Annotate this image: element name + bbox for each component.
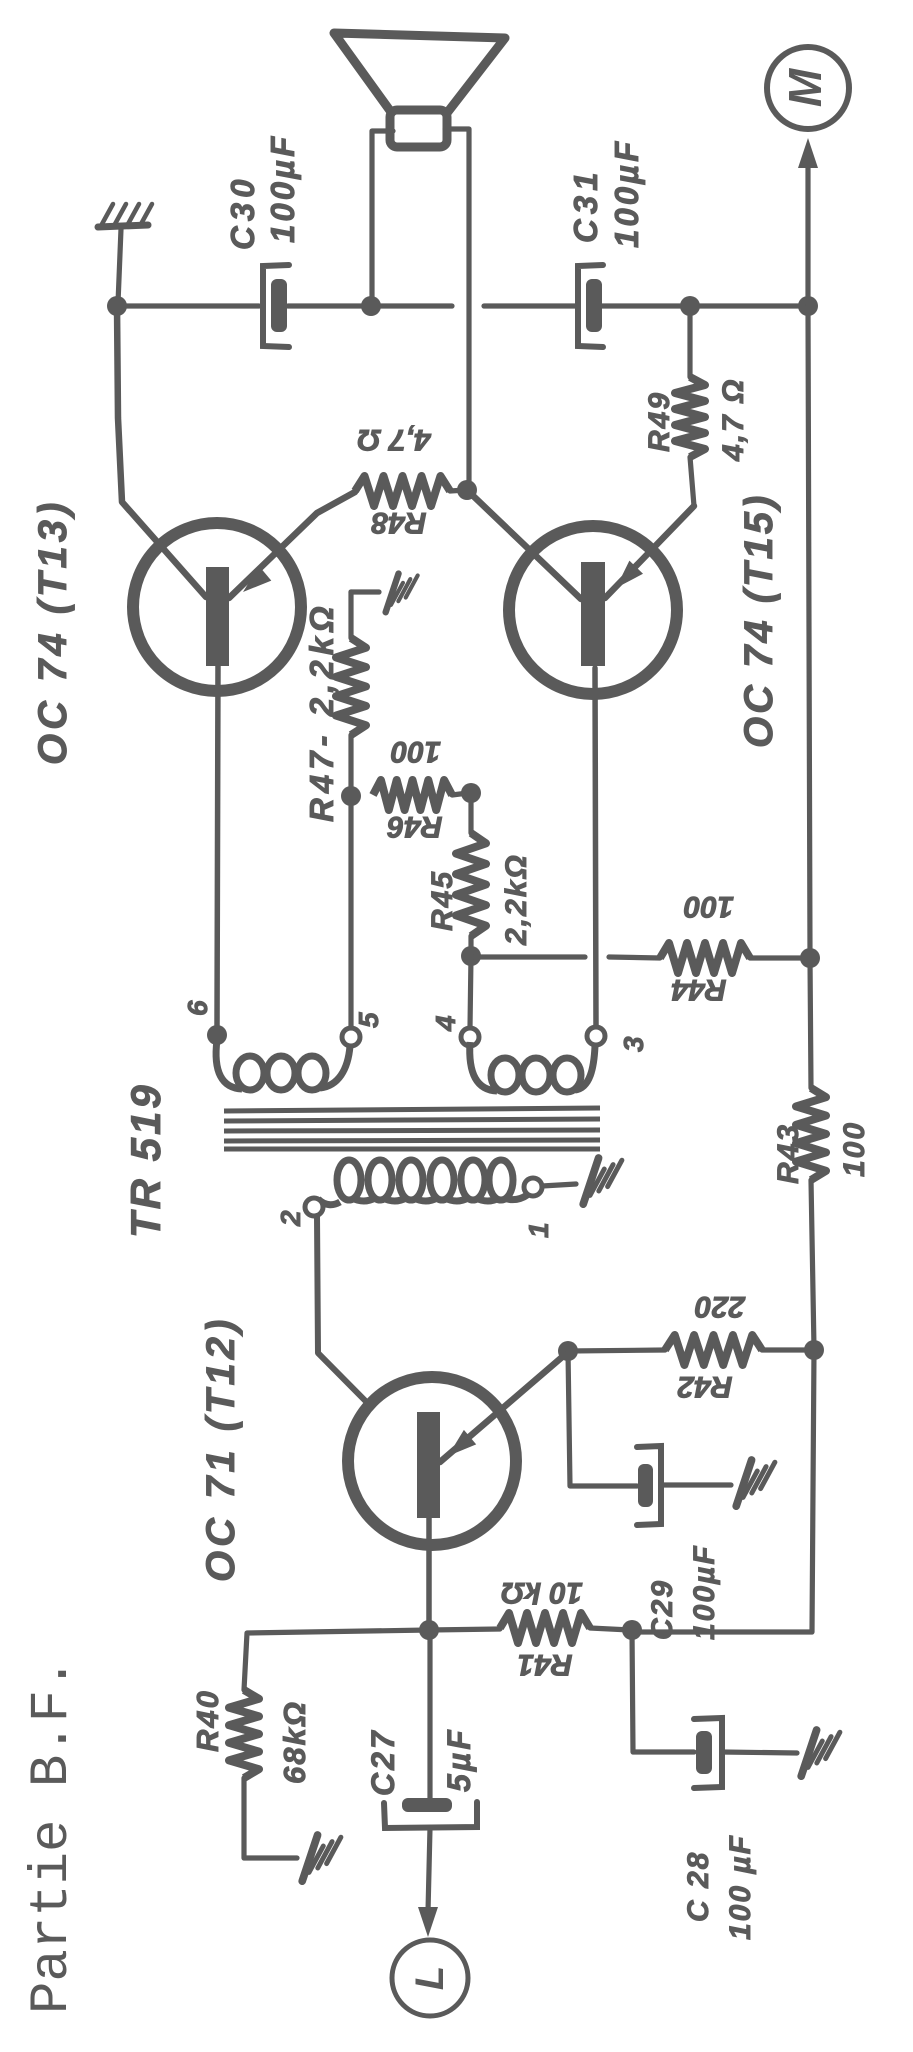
transistor T15 (OC74) circle bbox=[509, 526, 677, 694]
label T12 bbox=[199, 1316, 243, 1582]
label M bbox=[779, 67, 831, 107]
svg-text:M: M bbox=[779, 67, 831, 107]
label C28 value bbox=[724, 1834, 757, 1940]
label C29 bbox=[646, 1579, 679, 1640]
label C29 value bbox=[688, 1544, 721, 1640]
wire M lead bbox=[805, 166, 810, 306]
svg-text:R45: R45 bbox=[426, 870, 459, 931]
capacitor C29 wiring bbox=[568, 1351, 637, 1486]
T12 emitter arrow bbox=[448, 1430, 476, 1456]
label R49 bbox=[643, 391, 676, 452]
label R40 bbox=[190, 1689, 225, 1752]
label T15 bbox=[737, 493, 781, 748]
svg-text:R48: R48 bbox=[371, 506, 426, 539]
svg-text:5µF: 5µF bbox=[441, 1727, 477, 1792]
resistor R47 bbox=[336, 592, 366, 793]
svg-text:L: L bbox=[408, 1966, 452, 1990]
svg-text:100: 100 bbox=[684, 890, 734, 923]
wire top bus segment a bbox=[117, 303, 259, 308]
svg-text:R44: R44 bbox=[671, 973, 726, 1006]
wire GND1 stem bbox=[118, 229, 121, 303]
capacitor C31 bbox=[578, 265, 603, 347]
xfmr terminal 3 bbox=[587, 1027, 605, 1045]
svg-text:C27: C27 bbox=[365, 1728, 401, 1796]
node N4 (bus/M/right bus) bbox=[798, 296, 818, 316]
svg-text:R40: R40 bbox=[190, 1689, 225, 1752]
resistor R45 bbox=[456, 793, 486, 954]
svg-text:220: 220 bbox=[695, 1290, 746, 1323]
label T13 bbox=[31, 499, 75, 765]
label R48 value bbox=[357, 423, 431, 456]
ground GND2 (R47 top) bbox=[386, 574, 418, 613]
svg-text:OC 74 (T13): OC 74 (T13) bbox=[31, 499, 75, 765]
resistor R40 bbox=[229, 1630, 429, 1858]
wire N8 to terminal 4 bbox=[470, 956, 471, 1028]
wire T13 collector bbox=[117, 306, 206, 597]
resistor R42 bbox=[568, 1335, 810, 1365]
resistor R48 bbox=[355, 476, 466, 506]
wire speaker left lead bbox=[372, 131, 393, 302]
wire C28 to GND6 bbox=[722, 1752, 797, 1753]
wire T12 base lead bbox=[426, 1518, 432, 1628]
node N2 (speaker left) bbox=[361, 296, 381, 316]
resistor R44 bbox=[660, 943, 806, 973]
xfmr primary winding bbox=[318, 1160, 531, 1205]
label 4 bbox=[430, 1015, 461, 1032]
svg-text:4,7 Ω: 4,7 Ω bbox=[717, 378, 750, 462]
xfmr terminal 5 bbox=[342, 1028, 360, 1046]
svg-text:100µF: 100µF bbox=[264, 134, 301, 243]
label C31 value bbox=[567, 139, 645, 248]
svg-text:C31: C31 bbox=[567, 167, 604, 243]
terminal L circle bbox=[392, 1940, 468, 2016]
transistor T13 (OC74) circle bbox=[133, 523, 301, 691]
svg-text:2: 2 bbox=[275, 1210, 306, 1227]
T15 emitter arrow bbox=[616, 561, 643, 588]
label TR519 bbox=[122, 1082, 169, 1238]
wire R47 to GND2 bbox=[351, 589, 379, 594]
svg-text:100 µF: 100 µF bbox=[724, 1834, 757, 1940]
label R47 bbox=[303, 601, 340, 822]
wire speaker right lead bbox=[445, 129, 469, 487]
label R43 value bbox=[838, 1121, 871, 1177]
xfmr terminal 1 bbox=[524, 1178, 542, 1196]
svg-text:R43: R43 bbox=[772, 1123, 805, 1184]
wire C28 wiring bbox=[632, 1630, 694, 1752]
wire right bus lower bbox=[634, 1350, 814, 1632]
node N11 (emitter/R42/C29) bbox=[558, 1341, 578, 1361]
svg-text:68kΩ: 68kΩ bbox=[277, 1700, 312, 1784]
label R41 value bbox=[501, 1576, 583, 1609]
wire right bus upper bbox=[808, 306, 810, 955]
arrow to M bbox=[798, 138, 818, 168]
speaker LS bbox=[334, 33, 505, 147]
svg-text:100µF: 100µF bbox=[688, 1544, 721, 1640]
wire terminal 1 to GND3 bbox=[542, 1184, 576, 1186]
wire terminal2 to T12 collector bbox=[317, 1216, 417, 1453]
ground GND6 (C28) bbox=[801, 1730, 840, 1776]
wire C29 to GND4 bbox=[661, 1482, 731, 1487]
label R46 bbox=[387, 810, 442, 843]
label R45 bbox=[426, 870, 459, 931]
svg-text:Partie B.F.: Partie B.F. bbox=[22, 1658, 83, 2014]
wire T13 emitter bbox=[229, 492, 355, 598]
xfmr terminal 6 bbox=[207, 1025, 227, 1045]
arrow to L bbox=[418, 1907, 438, 1937]
node N12 (base/R40/R41/C27) bbox=[419, 1620, 439, 1640]
label C27 bbox=[365, 1728, 401, 1796]
ground GND4 (C29) bbox=[736, 1460, 775, 1506]
capacitor C28 bbox=[694, 1718, 722, 1788]
transistor T12 (OC71) circle bbox=[348, 1377, 516, 1545]
svg-text:C 28: C 28 bbox=[682, 1851, 715, 1922]
label 3 bbox=[618, 1036, 649, 1052]
capacitor C30 bbox=[263, 265, 289, 347]
resistor R49 bbox=[675, 306, 705, 506]
capacitor C27 bbox=[384, 1798, 477, 1828]
xfmr terminal 2 bbox=[305, 1198, 323, 1216]
node N13 (R41/C28/right bus) bbox=[622, 1620, 642, 1640]
svg-text:10 kΩ: 10 kΩ bbox=[501, 1576, 583, 1609]
resistor R46 bbox=[373, 780, 468, 810]
wire T15 collector bbox=[467, 490, 581, 599]
node N10 (R43/R42) bbox=[804, 1340, 824, 1360]
node N7 (R46/R45/speaker wire) bbox=[461, 783, 481, 803]
label 6 bbox=[182, 1000, 213, 1016]
label R48 bbox=[371, 506, 426, 539]
wire N6 to terminal 5 bbox=[348, 796, 353, 1028]
svg-text:6: 6 bbox=[182, 1000, 213, 1016]
svg-text:5: 5 bbox=[353, 1012, 384, 1028]
label R44 value bbox=[684, 890, 734, 923]
label R44 bbox=[671, 973, 726, 1006]
terminal M circle bbox=[767, 47, 849, 129]
svg-text:1: 1 bbox=[523, 1222, 554, 1238]
capacitor C27 wiring bbox=[427, 1630, 432, 1799]
capacitor C29 bbox=[637, 1446, 661, 1525]
label R41 bbox=[517, 1648, 572, 1681]
wire N8 to R44 b bbox=[609, 957, 660, 958]
T13 emitter arrow bbox=[243, 566, 271, 592]
wire top bus segment d bbox=[602, 303, 808, 308]
label 5 bbox=[353, 1012, 384, 1028]
title Partie B.F. bbox=[22, 1658, 83, 2014]
svg-text:R41: R41 bbox=[517, 1648, 572, 1681]
node N3 (R49 top) bbox=[680, 296, 700, 316]
svg-text:OC 74 (T15): OC 74 (T15) bbox=[737, 493, 781, 748]
wire N8 to R44 a bbox=[471, 954, 585, 959]
wire top bus segment c bbox=[484, 303, 577, 308]
label R45 value bbox=[500, 853, 533, 946]
node N1 (GND1/bus/T13 collector) bbox=[107, 296, 127, 316]
wire top bus segment b bbox=[288, 303, 452, 308]
label 2 bbox=[275, 1210, 306, 1227]
label R49 value bbox=[717, 378, 750, 462]
svg-text:100µF: 100µF bbox=[608, 139, 645, 248]
svg-text:C29: C29 bbox=[646, 1579, 679, 1640]
node N9 (R44/right bus) bbox=[800, 948, 820, 968]
xfmr core bbox=[224, 1108, 600, 1149]
label R46 value bbox=[391, 735, 441, 768]
svg-text:100: 100 bbox=[391, 735, 441, 768]
label 1 bbox=[523, 1222, 554, 1238]
svg-text:R47- 2,2kΩ: R47- 2,2kΩ bbox=[303, 601, 340, 822]
svg-text:R46: R46 bbox=[387, 810, 442, 843]
xfmr terminal 4 bbox=[461, 1028, 479, 1046]
label L bbox=[408, 1966, 452, 1990]
svg-text:R49: R49 bbox=[643, 391, 676, 452]
svg-text:OC 71 (T12): OC 71 (T12) bbox=[199, 1316, 243, 1582]
node N5 (R48/T15 coll/speaker wire) bbox=[457, 480, 477, 500]
resistor R43 bbox=[796, 958, 826, 1348]
svg-text:C30: C30 bbox=[224, 174, 261, 250]
ground GND1 (top left) bbox=[98, 204, 152, 227]
node N6 (R47/R46/xfmr5) bbox=[341, 786, 361, 806]
node N8 (R45/R44/xfmr4) bbox=[461, 946, 481, 966]
svg-text:4: 4 bbox=[430, 1015, 461, 1032]
svg-text:R42: R42 bbox=[677, 1370, 732, 1403]
wire T15 emitter bbox=[605, 506, 694, 598]
wire T12 emitter bbox=[440, 1352, 568, 1462]
label R42 bbox=[677, 1370, 732, 1403]
transistor T13 base bar bbox=[206, 567, 229, 666]
wire T13 base lead bbox=[217, 665, 218, 1028]
wire C27 to L bbox=[428, 1828, 430, 1912]
label C30 value bbox=[224, 134, 301, 250]
xfmr winding 4-3 bbox=[470, 1042, 595, 1092]
transistor T15 base bar bbox=[581, 562, 605, 666]
transistor T12 base bar bbox=[417, 1412, 440, 1518]
svg-text:100: 100 bbox=[838, 1121, 871, 1177]
svg-text:2,2kΩ: 2,2kΩ bbox=[500, 853, 533, 946]
resistor R41 bbox=[429, 1613, 630, 1643]
svg-text:3: 3 bbox=[618, 1036, 649, 1052]
ground GND3 (xfmr primary) bbox=[583, 1158, 622, 1204]
label C27 value bbox=[441, 1727, 477, 1792]
ground GND5 (R40) bbox=[302, 1835, 341, 1881]
label C28 bbox=[682, 1851, 715, 1922]
svg-text:4,7 Ω: 4,7 Ω bbox=[357, 423, 431, 456]
xfmr winding 6-5 bbox=[216, 1040, 350, 1090]
wire T15 base lead bbox=[595, 668, 596, 1027]
svg-text:TR 519: TR 519 bbox=[122, 1082, 169, 1238]
label R42 value bbox=[695, 1290, 746, 1323]
label R43 bbox=[772, 1123, 805, 1184]
label R40 value bbox=[277, 1700, 312, 1784]
